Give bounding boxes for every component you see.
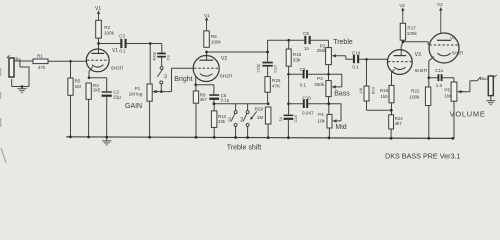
wiper arrow P3 [331,85,335,88]
wire V3 anode lead [401,40,403,55]
svg-text:33k: 33k [218,119,226,124]
capacitor C11 [438,74,443,81]
wire C10 row [289,103,329,105]
wire P5 bottom lead [453,101,455,138]
wire C4 bottom to S2 [161,58,163,67]
resistor R9 [193,91,198,103]
wire jack body to ground bus [12,79,29,87]
svg-text:S4: S4 [239,116,244,122]
wire V2 cathode lead [195,76,197,85]
wire P4 wiper loop [329,104,341,121]
potentiometer P2 [326,48,332,65]
wire P1 bottom lead [149,101,151,137]
op-amp/tube V1 6Н2П [86,49,109,72]
svg-text:33k: 33k [293,57,301,62]
switch S4 treble shift [243,111,249,127]
svg-text:1n: 1n [304,46,310,51]
wiper arrow P5 [457,90,463,93]
svg-text:R1: R1 [37,54,43,59]
wire C5 top lead [213,85,215,95]
wiper arrow P1 [152,90,158,93]
svg-text:6Н2П: 6Н2П [415,68,428,74]
svg-text:0.1: 0.1 [352,65,359,70]
wire C9 row [289,73,329,75]
wire C11 row [429,77,454,79]
wire R1 to V1 grid [48,60,87,62]
power arrow V1 node a [97,10,100,20]
svg-text:C13: C13 [273,64,278,72]
svg-text:V2: V2 [221,56,227,62]
resistor R8 [204,31,210,47]
svg-text:V4: V4 [450,35,456,40]
wire output tick [477,77,480,81]
wire top rail C8 to P2 [311,40,329,47]
svg-text:V3: V3 [415,52,421,58]
svg-text:GAIN: GAIN [125,103,142,110]
wire S3 leads [235,104,237,138]
wire R25 bottom lead [267,92,269,104]
svg-text:6Н2П: 6Н2П [220,74,233,80]
wire C4 top lead [161,44,163,53]
svg-text:Вх: Вх [15,58,21,64]
input jack Вх [7,55,14,77]
svg-text:R18: R18 [380,88,389,93]
wire R3 bottom lead [88,99,90,137]
svg-text:0.047: 0.047 [302,111,314,116]
svg-text:R25: R25 [272,78,281,83]
capacitor C15 [284,115,294,120]
svg-text:1k5: 1k5 [93,88,101,93]
trimmer arrow R29 [250,111,257,120]
resistor R5 [68,78,73,95]
svg-text:R22: R22 [411,89,420,94]
svg-text:220p: 220p [255,63,260,73]
svg-text:C3: C3 [119,33,125,38]
svg-text:250k: 250k [314,82,325,87]
svg-text:10k: 10k [317,118,325,123]
wire R8 V2 anode rail [207,52,268,60]
svg-text:1μ: 1μ [278,116,283,121]
wire C2 bottom lead [106,97,108,137]
tube V4 6Н2П [429,33,459,63]
svg-text:V2: V2 [437,2,443,7]
ground main bus [102,137,111,145]
svg-text:250k: 250k [317,48,328,53]
svg-text:1M log: 1M log [129,91,143,96]
svg-text:C4: C4 [165,55,170,61]
wire R9 bottom lead [195,103,197,137]
svg-text:Bass: Bass [334,90,350,97]
svg-text:100k: 100k [104,30,115,35]
svg-text:C10: C10 [302,95,311,100]
tubes [86,33,459,82]
svg-text:400p: 400p [151,51,156,61]
capacitor C4 [157,53,166,58]
svg-text:1M: 1M [257,115,264,120]
power arrow V2 node b [439,7,442,33]
svg-text:R5: R5 [75,79,81,84]
wire R15 top lead [288,40,290,49]
svg-text:100k: 100k [407,31,418,36]
resistor R18 [389,85,394,102]
capacitor C3 [120,39,126,48]
svg-text:0.1μ: 0.1μ [221,98,230,103]
output jack Вых [488,75,496,96]
svg-text:47K: 47K [272,83,281,88]
svg-text:1M: 1M [75,84,82,89]
svg-text:22μ: 22μ [113,94,121,99]
wire R18 R24 junction column [390,103,392,138]
wire S4 leads [247,104,249,138]
wire P3 bottom lead [328,97,330,104]
wire bright node to P1 top [149,44,151,85]
wire cathode node to C2 [89,78,107,92]
wire output jack ground lead [490,96,492,101]
wire V3 anode to V4 grid [403,42,428,45]
wire C15 bottom lead [287,120,289,138]
svg-text:1M: 1M [358,88,363,94]
svg-text:P5: P5 [444,88,450,93]
potentiometer P3 [326,81,331,97]
wire V1 cathode lead [89,67,93,78]
svg-text:Treble: Treble [333,39,353,46]
svg-text:6Н2П: 6Н2П [452,51,463,56]
svg-text:S3: S3 [227,116,232,122]
wire input tip to R1 [14,60,33,62]
wire P4 top lead [328,104,330,115]
svg-text:1.0: 1.0 [436,83,443,88]
wire treble shift rail [214,103,268,105]
resistor R1 [33,59,48,64]
wire P2 wiper to C14 [335,56,353,60]
svg-text:V1: V1 [204,13,210,18]
svg-text:C9: C9 [300,67,306,72]
wire jack sleeve step [20,62,29,87]
svg-text:1M: 1M [444,94,451,99]
resistor R3 [86,83,91,99]
wire P1 wiper rail [153,91,172,93]
wire R22 leads [428,78,430,139]
wire R16 top lead [366,59,368,86]
wire C3 rail left [99,43,121,45]
wire V1 anode R2 C3 junction column [98,38,100,53]
resistor R25 [265,77,270,93]
wire R29 bottom lead [267,124,269,138]
wiper arrow P4 [332,119,336,122]
wire V3 cathode lead [392,69,395,85]
wire C3 rail right to bright node [127,43,162,45]
svg-text:1k5: 1k5 [381,94,389,99]
capacitor C9 [303,70,308,78]
capacitor C10 [303,99,308,108]
wire R15 bottom column [288,66,290,114]
tube V3 6Н2П [387,50,412,75]
capacitor C13 [262,62,272,67]
svg-text:0.1: 0.1 [119,48,126,53]
wire R5 bottom lead [70,95,72,137]
wire V4 cathode lead [429,57,434,78]
svg-text:4k7: 4k7 [395,121,403,126]
capacitor C5 [209,94,219,100]
wire S2 bottom lead [160,84,162,92]
wire R16 bottom to R18 R24 node [367,101,392,110]
switch S2 bright [157,66,163,84]
capacitor plates [102,36,443,120]
capacitor C8 [304,36,310,44]
svg-text:Treble shift: Treble shift [227,144,261,151]
svg-text:R17: R17 [407,26,416,31]
svg-text:DKS BASS PRE Ver3.1: DKS BASS PRE Ver3.1 [385,151,461,160]
svg-text:R8: R8 [211,34,217,39]
wiper arrow P2 [332,54,336,57]
capacitor C14 [353,55,359,63]
svg-text:V1: V1 [112,48,118,54]
potentiometer P4 [327,114,332,128]
wire C5 bottom lead [213,100,215,104]
wire R5 top lead [70,61,72,78]
svg-text:C8: C8 [303,31,309,36]
wire P3 wiper loop [329,74,342,87]
wire anode node riser and top rail [268,40,305,52]
svg-text:4k7: 4k7 [200,97,208,102]
wire P5 wiper to output [460,81,477,92]
wire R10 leads [213,104,215,138]
svg-text:C15: C15 [293,114,298,122]
svg-text:R23: R23 [370,86,375,94]
svg-text:C11: C11 [435,68,444,73]
svg-text:VOLUME: VOLUME [450,109,486,118]
svg-text:R15: R15 [293,52,302,57]
resistor R10 [211,111,217,128]
ground bus [66,137,453,139]
resistor R16 [364,86,369,101]
svg-text:Вых: Вых [480,76,490,82]
svg-text:V1: V1 [95,6,101,12]
svg-text:6Н2П: 6Н2П [111,66,124,72]
wire P4 bottom lead [328,128,330,138]
svg-text:P3: P3 [317,76,323,81]
svg-text:R2: R2 [104,25,110,30]
svg-text:S2: S2 [163,73,168,79]
svg-text:P4: P4 [318,112,324,117]
svg-text:0.1: 0.1 [300,83,307,88]
svg-text:100k: 100k [211,39,222,44]
scan edge artifacts [1,68,6,163]
power arrow V2 node a [401,7,404,23]
ground output jack [486,101,495,105]
wire riser to V2 grid [172,68,194,91]
resistor R29 trimmer [265,107,271,124]
tube V2 6Н2П [193,56,219,82]
switch S3 treble shift [231,111,237,127]
svg-text:Bright: Bright [174,76,192,83]
potentiometer P5 [451,82,457,101]
potentiometer P1 [147,84,152,101]
svg-text:V2: V2 [399,3,405,8]
wire C13 leads [267,52,269,77]
wire C14 to V3 grid [359,58,387,60]
resistor R22 [425,87,430,106]
resistor R17 [400,23,405,40]
wire C11 to P5 top [453,78,455,82]
svg-text:47k: 47k [38,65,46,70]
svg-text:Mid: Mid [335,124,346,131]
wire P2 bottom lead [328,65,330,81]
power arrow V1 node b [205,17,208,31]
resistor R15 [286,49,291,66]
resistor R24 [389,115,394,129]
wire cathode node R9 C5 [196,85,214,91]
ground input jack [18,87,27,93]
svg-text:100k: 100k [409,95,420,100]
capacitor C2 [102,91,112,96]
resistor R2 [96,20,102,38]
svg-text:C14: C14 [352,50,361,55]
svg-text:R29: R29 [255,107,264,112]
